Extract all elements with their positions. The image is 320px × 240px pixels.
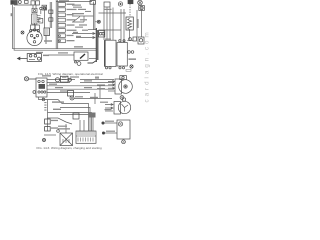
svg-text:cardiagn.com: cardiagn.com	[144, 29, 150, 102]
svg-text:FIG. 14-6 Wiring diagram, cha: FIG. 14-6 Wiring diagram, charging and s…	[37, 146, 103, 150]
